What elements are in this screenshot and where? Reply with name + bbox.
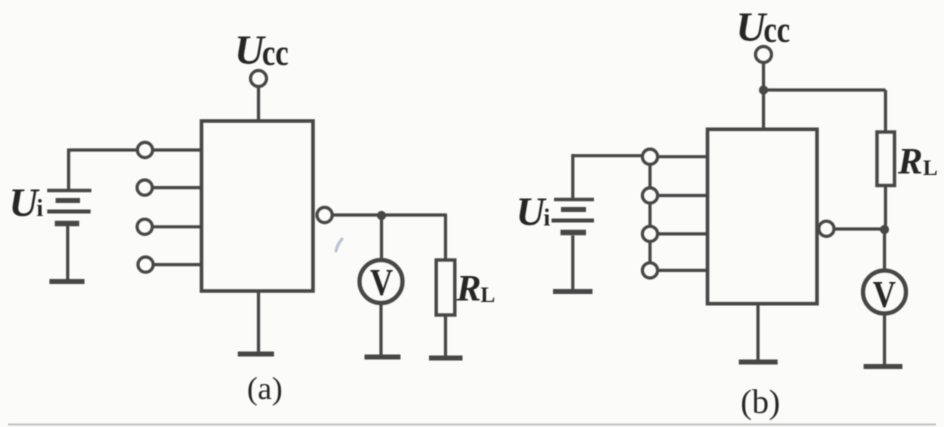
- svg-text:L: L: [481, 282, 496, 307]
- svg-text:R: R: [897, 142, 923, 183]
- svg-text:cc: cc: [764, 10, 791, 51]
- svg-text:cc: cc: [262, 33, 289, 74]
- svg-text:V: V: [873, 273, 896, 315]
- svg-text:i: i: [544, 206, 551, 232]
- svg-text:U: U: [516, 189, 547, 234]
- svg-text:(a): (a): [247, 370, 283, 406]
- svg-text:L: L: [923, 155, 938, 180]
- svg-text:(b): (b): [741, 384, 781, 421]
- svg-text:V: V: [370, 261, 393, 303]
- svg-text:i: i: [37, 196, 44, 222]
- svg-text:U: U: [9, 180, 40, 225]
- svg-text:R: R: [456, 269, 482, 310]
